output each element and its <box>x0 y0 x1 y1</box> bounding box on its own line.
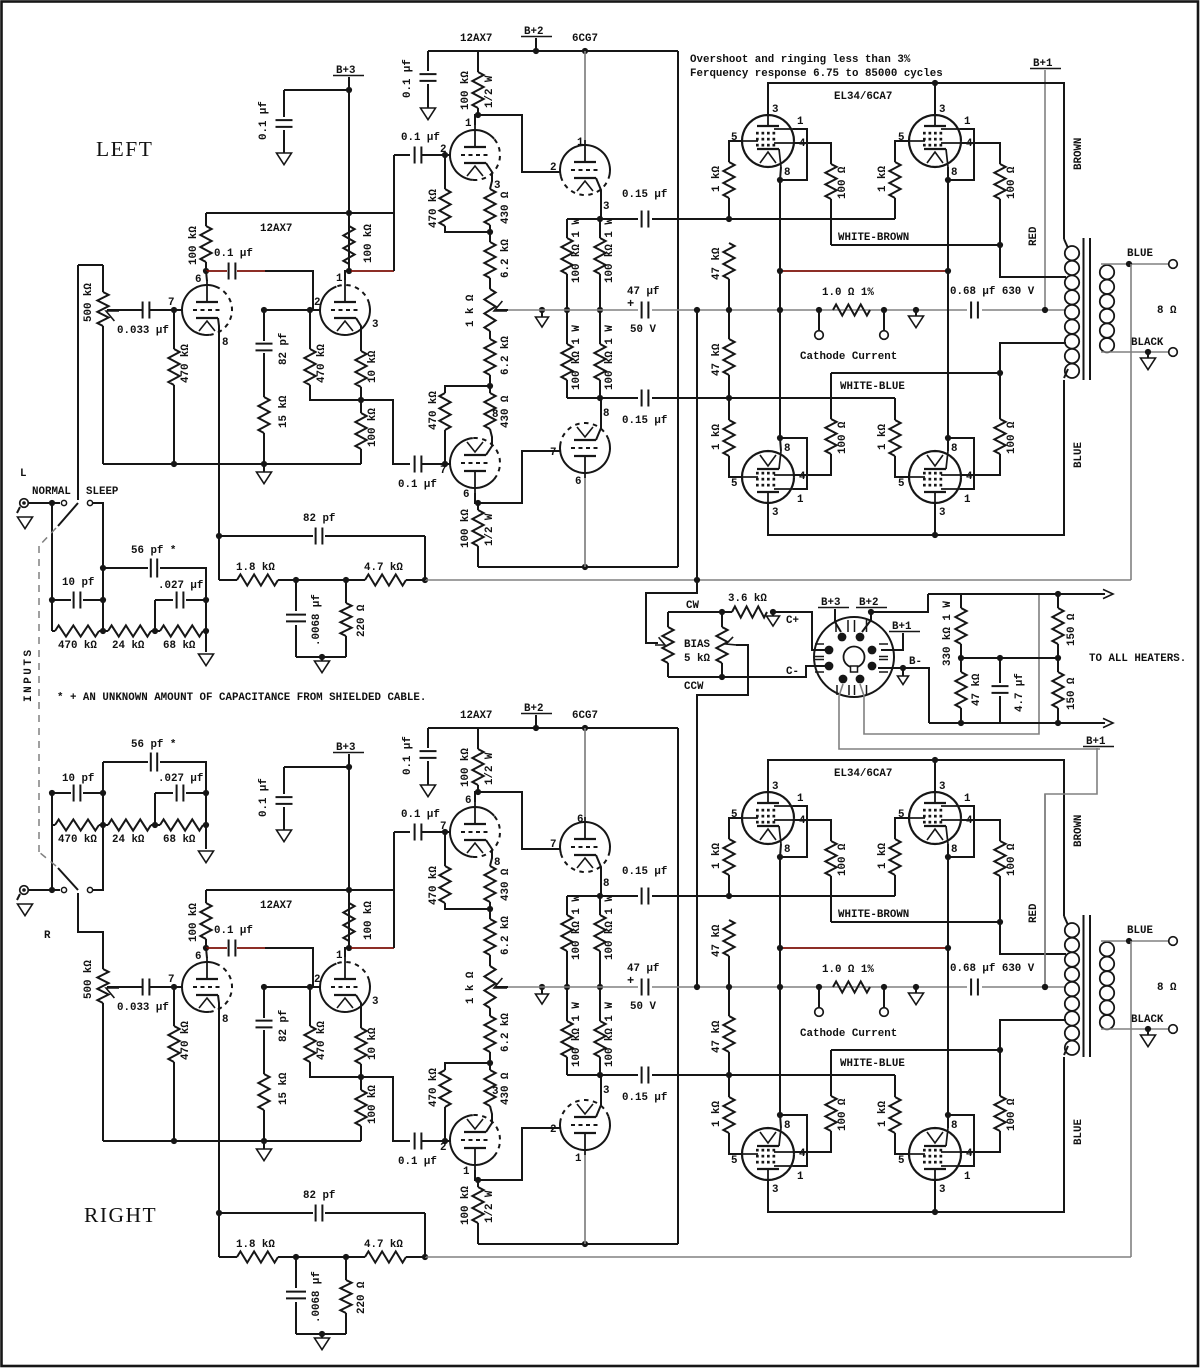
svg-text:68 kΩ: 68 kΩ <box>163 834 196 846</box>
svg-text:5: 5 <box>731 132 737 144</box>
wire B+1 to center tap <box>1044 70 1046 310</box>
triode V1a 12AX7 first stage <box>182 285 220 335</box>
svg-text:8: 8 <box>784 1120 790 1132</box>
svg-text:4.7 kΩ: 4.7 kΩ <box>364 562 403 574</box>
wire feedback line <box>219 1256 237 1258</box>
svg-text:8: 8 <box>222 337 228 349</box>
capacitor 0.15uf upper <box>642 211 649 228</box>
resistor 100k 1W b <box>599 896 601 915</box>
svg-text:12AX7: 12AX7 <box>260 900 292 912</box>
resistor 1k grid lower right <box>894 1075 896 1097</box>
triode V1b 12AX7 second stage <box>320 964 370 1013</box>
svg-text:0.1 µf: 0.1 µf <box>258 101 270 140</box>
svg-text:1/2 W: 1/2 W <box>484 75 496 108</box>
resistor 100k 1W a <box>566 896 568 915</box>
svg-text:1 k Ω: 1 k Ω <box>465 294 477 327</box>
svg-text:2: 2 <box>314 297 320 309</box>
svg-text:470 kΩ: 470 kΩ <box>428 189 440 228</box>
wire plate V2a <box>475 792 478 802</box>
ground feedback shunt <box>321 1334 323 1338</box>
triode V3b 6CG7 lower <box>560 1116 610 1150</box>
svg-text:100 kΩ: 100 kΩ <box>367 1085 379 1124</box>
wire to driver grid <box>422 154 450 156</box>
svg-text:100 kΩ: 100 kΩ <box>363 901 375 940</box>
svg-text:RIGHT: RIGHT <box>84 1203 157 1227</box>
ground cathode current <box>915 987 917 993</box>
resistor 47k lower <box>728 310 730 339</box>
svg-text:+: + <box>627 974 634 988</box>
svg-text:3: 3 <box>772 507 778 519</box>
svg-text:470 kΩ: 470 kΩ <box>428 866 440 905</box>
svg-text:3: 3 <box>772 1184 778 1196</box>
svg-text:1: 1 <box>964 793 971 805</box>
svg-text:47 kΩ: 47 kΩ <box>711 343 723 376</box>
ground bus arrow <box>261 461 267 467</box>
wire plate rail first stage <box>206 212 395 214</box>
svg-text:10 pf: 10 pf <box>62 773 94 785</box>
svg-text:82 pf: 82 pf <box>303 513 335 525</box>
svg-text:100 kΩ: 100 kΩ <box>367 408 379 447</box>
svg-text:150 Ω: 150 Ω <box>1066 677 1078 710</box>
svg-text:0.15 µf: 0.15 µf <box>622 1092 667 1104</box>
svg-text:100 kΩ: 100 kΩ <box>460 509 472 548</box>
svg-text:R: R <box>44 930 51 942</box>
svg-text:INPUTS: INPUTS <box>23 647 35 702</box>
resistor 150ohm lower <box>1057 658 1059 672</box>
capacitor 82pf <box>263 310 265 341</box>
svg-text:150 Ω: 150 Ω <box>1066 613 1078 646</box>
wire upper grid-drive line <box>567 895 638 897</box>
svg-text:1: 1 <box>336 273 343 285</box>
resistor 100ohm screen lower right <box>994 1096 1005 1131</box>
svg-text:NORMAL: NORMAL <box>32 486 71 498</box>
svg-text:470 kΩ: 470 kΩ <box>316 344 328 383</box>
wire cathode V1b to divider <box>356 318 361 351</box>
svg-text:7: 7 <box>550 839 556 851</box>
svg-text:470 kΩ: 470 kΩ <box>428 1068 440 1107</box>
resistor 470k input R <box>51 793 53 825</box>
svg-text:4: 4 <box>799 471 806 483</box>
svg-text:8: 8 <box>784 443 790 455</box>
pentode EL34 upper left <box>742 792 794 844</box>
wire screen bracket upper right <box>948 129 974 180</box>
resistor 100k 1W c <box>566 310 568 344</box>
ground B+3 bypass <box>277 153 292 165</box>
ground input network R <box>205 793 207 849</box>
wire WHITE-BLUE screen tap <box>831 372 1000 374</box>
svg-text:100 kΩ 1 W: 100 kΩ 1 W <box>604 895 616 960</box>
svg-text:+: + <box>627 297 634 311</box>
wire ground bus first stage <box>103 1140 361 1142</box>
svg-text:50 V: 50 V <box>630 1001 656 1013</box>
wire cathode V1a feedback riser <box>218 995 219 1257</box>
capacitor .0068uf <box>295 580 297 611</box>
wire feedback from output BLUE <box>1130 941 1132 1257</box>
svg-text:470 kΩ: 470 kΩ <box>58 834 97 846</box>
wire cathode lower right <box>947 271 949 451</box>
ground rail reference <box>539 307 545 313</box>
wire B- to heater bias <box>929 722 961 724</box>
triode V2b 12AX7 driver lower <box>450 1115 494 1165</box>
resistor 10k cathode V1b <box>355 351 366 387</box>
svg-text:RED: RED <box>1028 226 1040 246</box>
resistor 4.7k feedback <box>365 1251 406 1262</box>
triode V3a 6CG7 upper <box>560 822 610 856</box>
resistor 100k tail <box>360 1077 362 1090</box>
jack R input <box>20 886 29 895</box>
wire lower grid-drive line <box>567 1074 638 1076</box>
svg-text:3: 3 <box>603 201 609 213</box>
capacitor 0.1uf coupling to driver <box>415 824 422 841</box>
svg-text:15 kΩ: 15 kΩ <box>278 395 290 428</box>
wire B+3 riser and rail <box>348 754 350 767</box>
pentode EL34 lower right <box>909 1128 961 1180</box>
wire upper driver plate to 6CG7 grid <box>478 792 560 849</box>
capacitor 0.1uf coupling 1-2 <box>229 263 236 280</box>
wire SLEEP contact riser R <box>93 828 103 890</box>
svg-text:3: 3 <box>939 781 945 793</box>
ground speaker <box>1147 352 1149 358</box>
svg-text:100 Ω: 100 Ω <box>837 166 849 199</box>
wire bias to socket <box>773 612 826 650</box>
svg-text:0.15 µf: 0.15 µf <box>622 866 667 878</box>
svg-text:2: 2 <box>550 1124 556 1136</box>
wire 6CG7 upper plate <box>584 728 586 817</box>
wire grid V1a <box>113 309 142 311</box>
svg-text:8: 8 <box>494 857 500 869</box>
capacitor 0.15uf lower <box>642 1067 649 1084</box>
svg-text:WHITE-BLUE: WHITE-BLUE <box>840 1058 905 1070</box>
capacitor 47uf 50V <box>642 302 649 319</box>
svg-text:0.1 µf: 0.1 µf <box>401 132 440 144</box>
wire socket heater pin a <box>839 684 1100 749</box>
svg-text:RED: RED <box>1028 903 1040 923</box>
svg-text:CCW: CCW <box>684 681 704 693</box>
wire plate V2a <box>475 115 478 125</box>
potentiometer BIAS 5k left <box>667 612 669 627</box>
wire bias wiper to rail R <box>697 645 748 987</box>
resistor 470k grid upper driver <box>444 155 446 189</box>
svg-text:BROWN: BROWN <box>1073 138 1085 170</box>
svg-text:100 Ω: 100 Ω <box>837 843 849 876</box>
svg-text:0.033 µf: 0.033 µf <box>117 325 169 337</box>
svg-text:WHITE-BROWN: WHITE-BROWN <box>838 232 909 244</box>
svg-text:5: 5 <box>731 1155 737 1167</box>
svg-text:47 kΩ: 47 kΩ <box>711 1020 723 1053</box>
svg-text:0.1 µf: 0.1 µf <box>401 809 440 821</box>
svg-text:56 pf *: 56 pf * <box>131 739 176 751</box>
resistor 6.2k lower <box>489 1008 491 1016</box>
svg-text:6.2 kΩ: 6.2 kΩ <box>500 239 512 278</box>
svg-text:12AX7: 12AX7 <box>260 223 292 235</box>
svg-text:68 kΩ: 68 kΩ <box>163 640 196 652</box>
transformer secondary <box>1100 942 1114 956</box>
resistor 1k grid upper left <box>728 198 730 219</box>
wire B+2 rail lower <box>478 1243 678 1245</box>
wire feedback shunt bottom <box>296 656 346 658</box>
resistor 1k grid lower left <box>728 398 730 420</box>
resistor R 100k plate 2nd stage <box>343 903 354 941</box>
wire cathode upper right <box>947 167 949 271</box>
svg-text:1: 1 <box>465 118 472 130</box>
wire plate rail lower <box>768 380 1064 535</box>
svg-text:6: 6 <box>195 951 201 963</box>
resistor 470k grid lower driver <box>444 430 446 464</box>
resistor 100k tail <box>360 400 362 413</box>
resistor 100k 1W d <box>599 310 601 344</box>
resistor 100k 1W c <box>566 987 568 1021</box>
svg-text:100 kΩ: 100 kΩ <box>460 71 472 110</box>
resistor 470k grid upper driver <box>444 832 446 866</box>
svg-text:50 V: 50 V <box>630 324 656 336</box>
wire cathode lower left <box>780 948 781 1128</box>
resistor 6.2k lower <box>489 331 491 339</box>
svg-text:100 kΩ 1 W: 100 kΩ 1 W <box>571 1002 583 1067</box>
resistor 100ohm screen upper right <box>994 841 1005 876</box>
wire red plate node 1st stage <box>206 947 227 949</box>
wire heater arrow upper <box>928 593 1105 595</box>
svg-text:BLUE: BLUE <box>1073 442 1085 468</box>
wire 6CG7 lower plate <box>584 1155 586 1244</box>
svg-text:1 kΩ: 1 kΩ <box>877 843 889 869</box>
capacitor 56pf <box>103 567 148 569</box>
wire B+2 riser right <box>677 728 679 1244</box>
node C+ ground <box>770 609 776 615</box>
svg-text:15 kΩ: 15 kΩ <box>278 1072 290 1105</box>
ground B- <box>902 668 904 676</box>
svg-text:1: 1 <box>964 116 971 128</box>
wire grid bus V1b <box>264 309 320 311</box>
svg-text:5 kΩ: 5 kΩ <box>684 653 710 665</box>
svg-text:6: 6 <box>465 795 471 807</box>
resistor 100k 1/2W plate upper driver <box>477 728 479 749</box>
svg-text:0.1 µf: 0.1 µf <box>214 248 253 260</box>
svg-text:5: 5 <box>731 809 737 821</box>
wire WHITE-BROWN screen tap <box>831 244 1000 246</box>
ground B+3 bypass <box>277 830 292 842</box>
svg-text:4.7 kΩ: 4.7 kΩ <box>364 1239 403 1251</box>
svg-text:10 kΩ: 10 kΩ <box>367 350 379 383</box>
svg-text:1: 1 <box>797 793 804 805</box>
capacitor 47uf 50V <box>642 979 649 996</box>
capacitor 0.1uf B+2 bypass upper <box>427 51 429 71</box>
svg-text:8 Ω: 8 Ω <box>1157 305 1177 317</box>
svg-text:6CG7: 6CG7 <box>572 710 598 722</box>
pentode EL34 upper right <box>909 792 961 844</box>
svg-text:3: 3 <box>603 1085 609 1097</box>
svg-text:100 kΩ: 100 kΩ <box>460 1186 472 1225</box>
svg-text:5: 5 <box>731 478 737 490</box>
triode V1a 12AX7 first stage <box>182 962 220 1012</box>
wire grid bus V1b <box>264 986 320 988</box>
resistor 100ohm screen lower left <box>825 419 836 454</box>
wire red cathode link upper <box>780 270 947 272</box>
svg-text:0.68 µf 630 V: 0.68 µf 630 V <box>950 963 1035 975</box>
svg-text:500 kΩ: 500 kΩ <box>83 283 95 322</box>
svg-text:47 kΩ: 47 kΩ <box>711 924 723 957</box>
svg-text:4: 4 <box>966 1148 973 1160</box>
resistor 430ohm upper <box>484 866 495 902</box>
wire B+2 riser right <box>677 51 679 567</box>
resistor 330k 1W <box>928 593 961 595</box>
svg-text:BLACK: BLACK <box>1131 1014 1164 1026</box>
wire to lower driver grid <box>422 1140 450 1142</box>
svg-text:.0068 µf: .0068 µf <box>311 1271 323 1323</box>
pentode EL34 upper right <box>909 115 961 167</box>
resistor 470k input <box>51 600 53 631</box>
svg-text:C-: C- <box>786 666 799 678</box>
wire screen bracket lower right <box>948 438 974 489</box>
wire plate rail first stage <box>206 889 395 891</box>
svg-text:7: 7 <box>550 447 556 459</box>
wire pot wiper to rail <box>496 309 508 311</box>
svg-text:2: 2 <box>440 144 446 156</box>
svg-text:LEFT: LEFT <box>96 137 153 161</box>
svg-text:100 kΩ 1 W: 100 kΩ 1 W <box>604 218 616 283</box>
svg-text:7: 7 <box>440 821 446 833</box>
wire secondary BLUE output <box>1101 263 1169 265</box>
wire upper grid-drive line <box>567 218 638 220</box>
resistor R 100k plate 1st stage <box>205 890 207 903</box>
svg-text:1: 1 <box>797 1171 804 1183</box>
wire screen bracket upper left <box>780 806 807 857</box>
svg-text:3: 3 <box>492 1086 498 1098</box>
svg-text:8: 8 <box>951 167 957 179</box>
wire 56pf node riser R <box>102 762 104 828</box>
wire 6CG7 lower cathode <box>596 1075 601 1117</box>
potentiometer 1k hum balance <box>484 966 495 1008</box>
capacitor 0.68uf 630V <box>971 302 978 319</box>
wire plate rail upper <box>768 83 1064 239</box>
svg-text:WHITE-BLUE: WHITE-BLUE <box>840 381 905 393</box>
capacitor 0.033uf input <box>143 979 150 996</box>
wire B+1 to center tap lower <box>1044 794 1046 987</box>
wire screen bracket upper left <box>780 129 807 180</box>
resistor 100k 1W b <box>599 219 601 238</box>
capacitor 0.1uf coupling lower driver <box>415 456 422 473</box>
wire tail to lower driver <box>361 400 410 464</box>
resistor 6.2k upper <box>489 232 491 242</box>
svg-text:8: 8 <box>784 844 790 856</box>
svg-text:8: 8 <box>603 408 609 420</box>
svg-text:0.1 µf: 0.1 µf <box>402 59 414 98</box>
resistor 470k grid lower driver <box>444 1107 446 1141</box>
svg-text:Overshoot and ringing less tha: Overshoot and ringing less than 3% <box>690 54 911 66</box>
svg-text:100 kΩ 1 W: 100 kΩ 1 W <box>571 218 583 283</box>
svg-text:220 Ω: 220 Ω <box>356 604 368 637</box>
svg-text:82 pf: 82 pf <box>303 1190 335 1202</box>
wire coupling to grid 2 <box>237 270 265 272</box>
terminal cathode current b <box>883 987 885 1008</box>
svg-text:1 kΩ: 1 kΩ <box>711 1101 723 1127</box>
svg-text:4: 4 <box>966 471 973 483</box>
svg-text:1/2 W: 1/2 W <box>484 1190 496 1223</box>
resistor 220ohm <box>345 580 347 603</box>
svg-text:8: 8 <box>603 878 609 890</box>
svg-text:TO ALL HEATERS.: TO ALL HEATERS. <box>1089 653 1186 665</box>
wire cathode V1b to divider <box>356 995 361 1028</box>
resistor 430ohm lower <box>489 386 491 393</box>
svg-text:6: 6 <box>577 814 583 826</box>
svg-text:8: 8 <box>951 844 957 856</box>
switch NORMAL/SLEEP R <box>61 887 66 892</box>
svg-text:.027 µf: .027 µf <box>158 773 203 785</box>
wire cathode V1a feedback riser <box>218 318 219 580</box>
svg-text:0.1 µf: 0.1 µf <box>258 778 270 817</box>
svg-text:1.0 Ω 1%: 1.0 Ω 1% <box>822 964 874 976</box>
capacitor 10pf R <box>51 825 53 890</box>
wire 6CG7 upper cathode <box>596 178 601 219</box>
ground jack R <box>17 894 20 900</box>
wire cathode upper left <box>780 844 781 948</box>
resistor 15k <box>258 397 269 433</box>
svg-text:5: 5 <box>898 132 904 144</box>
svg-text:2: 2 <box>314 974 320 986</box>
svg-text:47 kΩ: 47 kΩ <box>971 673 983 706</box>
terminal cathode current a <box>818 987 820 1008</box>
resistor 100k 1/2W plate lower driver <box>475 1177 481 1183</box>
wire plate rail upper <box>768 760 1064 916</box>
resistor 470k grid V1b <box>309 310 311 349</box>
svg-text:470 kΩ: 470 kΩ <box>316 1021 328 1060</box>
wire screen bracket lower left <box>780 1115 807 1166</box>
svg-text:1 kΩ: 1 kΩ <box>711 424 723 450</box>
svg-text:0.1 µf: 0.1 µf <box>398 479 437 491</box>
resistor 6.2k upper <box>489 909 491 919</box>
svg-text:100 kΩ 1 W: 100 kΩ 1 W <box>604 325 616 390</box>
svg-text:6.2 kΩ: 6.2 kΩ <box>500 1013 512 1052</box>
capacitor 4.7uf <box>999 658 1001 683</box>
capacitor 82pf feedback <box>219 535 313 537</box>
svg-text:1/2 W: 1/2 W <box>484 752 496 785</box>
ground feedback shunt <box>321 657 323 661</box>
svg-text:8: 8 <box>951 443 957 455</box>
resistor 100ohm screen lower right <box>994 419 1005 454</box>
transformer primary <box>1065 246 1079 260</box>
wire red plate node 1st stage <box>206 270 227 272</box>
wire plate rail lower <box>768 1057 1064 1212</box>
capacitor 56pf R <box>103 761 148 763</box>
resistor 100ohm screen upper left <box>825 841 836 876</box>
svg-text:500 kΩ: 500 kΩ <box>83 960 95 999</box>
resistor 24k input R <box>108 819 151 830</box>
capacitor 82pf feedback <box>219 1212 313 1214</box>
svg-text:1 kΩ: 1 kΩ <box>877 424 889 450</box>
svg-text:470 kΩ: 470 kΩ <box>180 344 192 383</box>
capacitor 82pf <box>263 987 265 1018</box>
svg-text:BLACK: BLACK <box>1131 337 1164 349</box>
resistor R 100k plate 1st stage <box>205 213 207 226</box>
transformer core <box>1084 238 1091 380</box>
svg-text:7: 7 <box>440 465 446 477</box>
svg-text:10 pf: 10 pf <box>62 577 94 589</box>
resistor 220ohm <box>345 1257 347 1280</box>
wire lower grid-drive line <box>567 397 638 399</box>
svg-text:47 kΩ: 47 kΩ <box>711 247 723 280</box>
capacitor 0.1uf coupling lower driver <box>415 1133 422 1150</box>
wire cathode-current rail <box>508 309 638 311</box>
wire secondary BLUE output <box>1101 940 1169 942</box>
wire red plate node V1b <box>351 947 394 949</box>
svg-text:1 kΩ: 1 kΩ <box>877 1101 889 1127</box>
svg-text:6CG7: 6CG7 <box>572 33 598 45</box>
svg-text:Cathode Current: Cathode Current <box>800 351 897 363</box>
capacitor 10pf <box>51 503 53 600</box>
resistor 47k upper <box>723 243 734 279</box>
wire B+2 rail lower <box>478 566 678 568</box>
svg-text:0.1 µf: 0.1 µf <box>398 1156 437 1168</box>
svg-text:470 kΩ: 470 kΩ <box>58 640 97 652</box>
